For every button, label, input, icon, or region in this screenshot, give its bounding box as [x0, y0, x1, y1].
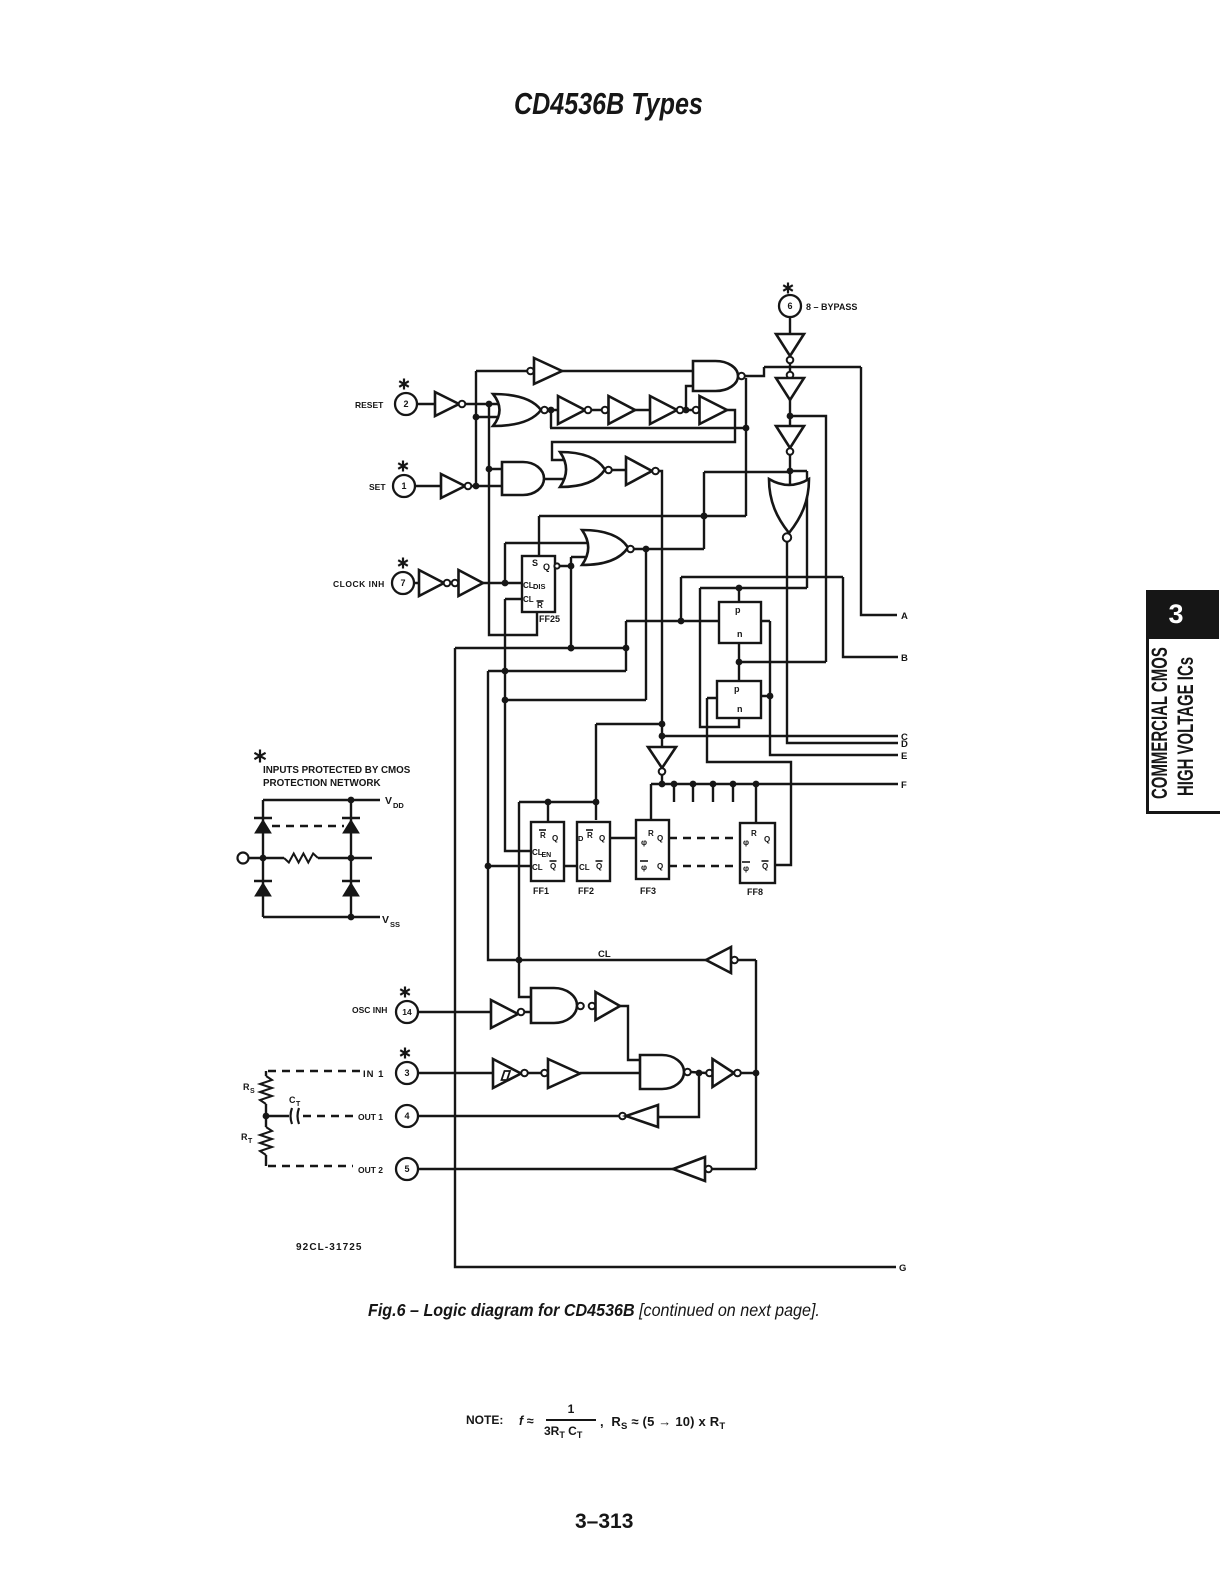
svg-text:Q: Q — [657, 834, 663, 843]
svg-text:CL: CL — [579, 863, 590, 872]
svg-text:R: R — [243, 1082, 250, 1092]
svg-text:14: 14 — [402, 1007, 412, 1017]
svg-text:φ: φ — [743, 837, 749, 847]
svg-text:IN 1: IN 1 — [363, 1069, 384, 1080]
svg-text:A: A — [901, 611, 908, 622]
svg-text:V: V — [385, 795, 392, 807]
svg-text:OSC INH: OSC INH — [352, 1005, 387, 1015]
svg-text:SS: SS — [390, 920, 400, 929]
svg-text:FF1: FF1 — [533, 886, 549, 896]
svg-text:FF3: FF3 — [640, 886, 656, 896]
svg-text:C: C — [901, 732, 908, 743]
svg-text:3: 3 — [404, 1068, 409, 1078]
svg-text:Q: Q — [764, 835, 770, 844]
svg-text:7: 7 — [400, 578, 405, 588]
svg-text:T: T — [248, 1138, 253, 1145]
svg-text:8 – BYPASS: 8 – BYPASS — [806, 302, 857, 312]
svg-text:Q: Q — [550, 862, 556, 871]
svg-text:G: G — [899, 1263, 906, 1274]
svg-text:2: 2 — [403, 399, 408, 409]
svg-text:RESET: RESET — [355, 400, 384, 410]
svg-text:4: 4 — [404, 1111, 409, 1121]
svg-text:p: p — [735, 605, 741, 615]
svg-text:Q: Q — [552, 834, 558, 843]
svg-text:T: T — [296, 1101, 301, 1108]
svg-text:Q: Q — [599, 834, 605, 843]
svg-text:R: R — [537, 601, 543, 610]
svg-text:R: R — [540, 831, 546, 840]
svg-text:6: 6 — [787, 301, 792, 311]
svg-text:n: n — [737, 629, 743, 639]
svg-text:OUT 1: OUT 1 — [358, 1112, 383, 1122]
svg-text:C: C — [289, 1095, 296, 1105]
svg-text:φ: φ — [743, 863, 749, 873]
svg-text:EN: EN — [542, 852, 552, 859]
svg-text:PROTECTION NETWORK: PROTECTION NETWORK — [263, 778, 381, 789]
svg-text:DD: DD — [393, 801, 404, 810]
svg-text:DIS: DIS — [533, 582, 546, 591]
svg-text:CL: CL — [532, 863, 543, 872]
svg-text:CLOCK INH: CLOCK INH — [333, 579, 385, 589]
svg-text:SET: SET — [369, 482, 386, 492]
svg-text:Q: Q — [543, 562, 550, 572]
svg-text:R: R — [587, 831, 593, 840]
svg-text:φ: φ — [641, 837, 647, 847]
svg-text:R: R — [751, 829, 757, 838]
svg-text:D: D — [578, 834, 584, 843]
svg-text:n: n — [737, 704, 743, 714]
svg-text:CL: CL — [523, 595, 534, 604]
svg-text:E: E — [901, 751, 907, 762]
svg-text:5: 5 — [404, 1164, 409, 1174]
svg-text:B: B — [901, 653, 908, 664]
svg-text:FF8: FF8 — [747, 887, 763, 897]
svg-text:φ: φ — [641, 862, 647, 872]
svg-text:V: V — [382, 914, 389, 926]
svg-text:S: S — [532, 558, 538, 568]
svg-text:FF25: FF25 — [539, 614, 560, 624]
svg-text:1: 1 — [401, 481, 406, 491]
svg-text:F: F — [901, 780, 907, 791]
svg-text:CL: CL — [598, 949, 611, 960]
svg-text:S: S — [250, 1088, 255, 1095]
svg-text:Q: Q — [657, 862, 663, 871]
svg-text:OUT 2: OUT 2 — [358, 1165, 383, 1175]
svg-text:p: p — [734, 684, 740, 694]
svg-text:INPUTS PROTECTED BY CMOS: INPUTS PROTECTED BY CMOS — [263, 765, 411, 776]
svg-text:Q: Q — [762, 862, 768, 871]
svg-text:R: R — [648, 829, 654, 838]
svg-text:R: R — [241, 1132, 248, 1142]
svg-text:Q: Q — [596, 862, 602, 871]
svg-text:FF2: FF2 — [578, 886, 594, 896]
